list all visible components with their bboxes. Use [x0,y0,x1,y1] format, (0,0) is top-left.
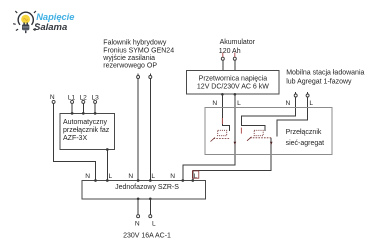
svg-text:L: L [108,173,112,180]
wire battery - to inverter [234,60,236,70]
svg-text:Przełącznik: Przełącznik [286,129,322,136]
svg-text:Przetwornica napięcia: Przetwornica napięcia [199,76,268,83]
relay K1 coil [218,130,227,135]
svg-text:przełącznik faz: przełącznik faz [63,127,110,134]
red tick net b [240,128,242,134]
svg-text:Napięcie: Napięcie [36,12,74,22]
junction SZR N1 [94,179,97,182]
lead tick Fronius L [149,74,151,76]
junction SZR L2 [149,179,152,182]
wire inverter L through switch [183,94,235,180]
arrow on L wire K2 [270,142,273,145]
terminal mobile station N [294,94,297,97]
svg-text:L: L [194,173,198,180]
logo plug tail [25,30,27,33]
svg-text:Falownik hybrydowy: Falownik hybrydowy [103,40,167,47]
terminal Fronius OP N [137,76,140,79]
box AZF-3X [60,113,115,149]
wire inverter N into switch [222,94,229,131]
junction inverter out N [221,93,224,96]
svg-text:120 Ah: 120 Ah [219,48,241,55]
junction inverter out L [234,93,237,96]
terminal L2 [82,100,85,103]
wire AZF output to SZR [106,150,108,181]
svg-text:Fronius SYMO GEN24: Fronius SYMO GEN24 [103,47,174,54]
terminal Fronius OP L [149,76,152,79]
svg-text:L: L [152,221,156,228]
wire SZR out L [149,199,151,215]
logo ray SW [16,29,18,30]
svg-text:N: N [50,94,55,101]
terminal N grid [52,100,55,103]
wire mobile N into switch [241,97,295,131]
wire N grid to SZR [54,104,96,181]
wire relay K2 output to SZR [193,138,271,180]
svg-text:L: L [151,173,155,180]
svg-text:L: L [237,100,241,107]
svg-text:230V 16A AC-1: 230V 16A AC-1 [123,233,171,240]
arrow on L wire K1 [234,142,237,145]
wire L3 to AZF [94,104,96,114]
terminal battery + [221,57,224,60]
junction SZR N2 [137,179,140,182]
junction SZR L1 [106,179,109,182]
junction L1 at AZF [71,112,74,115]
wire L1 to AZF [71,104,73,114]
terminal mobile station L [306,94,309,97]
relay K1 contact row [214,138,230,140]
priority frame around L pair3 [192,171,198,178]
svg-text:rezerwowego OP: rezerwowego OP [103,63,157,70]
junction SZR out L [149,197,152,200]
svg-text:AZF-3X: AZF-3X [63,135,87,142]
red tick net a [221,118,223,124]
logo ray NW [15,11,17,13]
junction AZF output [106,148,109,151]
relay K1 contact lever [211,138,216,142]
terminal L3 [94,100,97,103]
logo bulb arc [18,12,33,25]
lead tick mobile N [295,92,297,94]
logo plug body [22,24,29,30]
wire L2 to AZF [82,104,84,114]
svg-text:wyjście zasilania: wyjście zasilania [102,55,155,62]
logo plug prongs [23,23,25,25]
battery lead - [234,53,236,57]
wire battery + to inverter [222,60,224,70]
svg-text:Mobilna stacja ładowania: Mobilna stacja ładowania [286,70,364,77]
logo filament [23,19,27,21]
svg-text:12V DC/230V AC 6 kW: 12V DC/230V AC 6 kW [197,84,269,91]
box Jednofazowy SZR-S [82,181,205,199]
logo ray NE [34,11,36,13]
logo ray W [13,23,16,26]
box Przelacznik siec-agregat [205,108,332,155]
wire Fronius N to SZR [137,79,139,181]
svg-text:N: N [286,100,291,107]
svg-text:sieć-agregat: sieć-agregat [286,140,325,147]
logo bulb glass [21,15,30,24]
battery lead + [222,53,224,57]
junction L2 at AZF [82,112,85,115]
terminal L1 [71,100,74,103]
svg-text:Jednofazowy SZR-S: Jednofazowy SZR-S [115,184,179,191]
logo ray E [36,23,39,26]
logo ray SE [33,29,35,30]
junction SZR N3 [181,179,184,182]
svg-text:Automatyczny: Automatyczny [63,119,107,126]
junction SZR out N [137,197,140,200]
svg-text:N: N [85,173,90,180]
svg-text:N: N [212,100,217,107]
wire Fronius L to SZR [149,79,151,181]
wire mobile L through switch [277,97,307,136]
relay K2 contact lever [247,137,252,141]
logo plug hatch lines [23,26,29,29]
lead tick mobile L [307,92,309,94]
svg-text:Akumulator: Akumulator [220,39,256,46]
terminal out L [149,215,152,218]
relay K2 contact row [250,137,272,139]
svg-text:N: N [135,221,140,228]
svg-text:L: L [309,100,313,107]
terminal battery - [233,57,236,60]
junction SZR L3 [191,179,194,182]
wire SZR out N [137,199,139,215]
junction L3 at AZF [94,112,97,115]
relay K2 coil [254,130,263,135]
lead tick Fronius N [137,74,139,76]
svg-text:N: N [128,173,133,180]
svg-text:N: N [170,173,175,180]
svg-text:lub Agregat 1-fazowy: lub Agregat 1-fazowy [286,79,352,86]
svg-text:Salama: Salama [34,22,67,33]
terminal out N [137,215,140,218]
box Przetwornica napiecia [187,71,279,94]
